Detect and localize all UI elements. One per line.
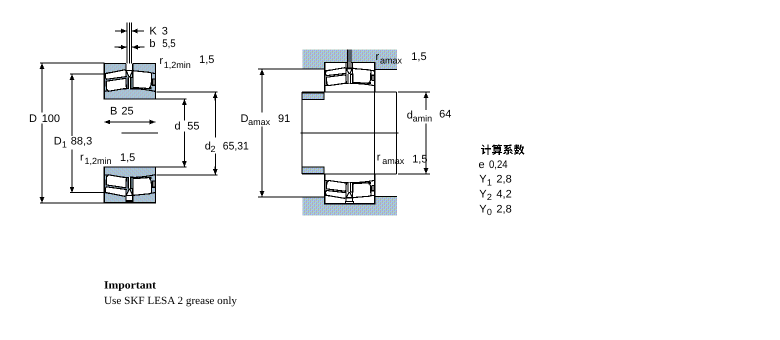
svg-text:25: 25 (121, 106, 133, 118)
svg-text:1,5: 1,5 (199, 54, 214, 66)
svg-text:amax: amax (382, 156, 405, 166)
svg-text:4,2: 4,2 (496, 188, 511, 200)
svg-text:r: r (377, 151, 381, 163)
svg-text:88,3: 88,3 (71, 136, 92, 148)
svg-text:B: B (110, 106, 117, 118)
svg-text:b: b (149, 38, 155, 50)
svg-text:r: r (376, 51, 380, 63)
svg-text:1: 1 (62, 139, 67, 149)
svg-text:1,5: 1,5 (411, 51, 426, 63)
svg-text:Important: Important (104, 279, 156, 291)
svg-text:2: 2 (211, 144, 216, 154)
svg-text:1,5: 1,5 (412, 153, 427, 165)
svg-text:55: 55 (187, 121, 199, 133)
svg-text:5,5: 5,5 (162, 38, 176, 50)
svg-text:0: 0 (487, 207, 492, 217)
svg-text:d: d (175, 121, 181, 133)
svg-text:91: 91 (278, 113, 290, 125)
svg-text:0,24: 0,24 (489, 159, 508, 171)
svg-text:e: e (479, 159, 485, 171)
svg-text:amax: amax (248, 117, 271, 127)
svg-text:100: 100 (42, 113, 60, 125)
svg-text:D: D (29, 113, 37, 125)
svg-text:Use SKF LESA 2 grease only: Use SKF LESA 2 grease only (104, 295, 238, 307)
svg-text:1,5: 1,5 (120, 152, 135, 164)
svg-text:1,2min: 1,2min (164, 60, 191, 70)
svg-text:r: r (159, 55, 163, 67)
svg-text:amax: amax (380, 56, 403, 66)
svg-text:64: 64 (439, 109, 451, 121)
svg-text:amin: amin (413, 114, 433, 124)
svg-text:K: K (149, 25, 157, 37)
svg-text:2: 2 (487, 192, 492, 202)
svg-text:2,8: 2,8 (496, 174, 511, 186)
svg-text:2,8: 2,8 (496, 204, 511, 216)
svg-text:1: 1 (487, 177, 492, 187)
svg-text:r: r (80, 152, 84, 164)
svg-text:1,2min: 1,2min (85, 156, 112, 166)
svg-text:65,31: 65,31 (223, 141, 249, 153)
svg-text:D: D (54, 136, 62, 148)
svg-text:3: 3 (162, 25, 168, 37)
